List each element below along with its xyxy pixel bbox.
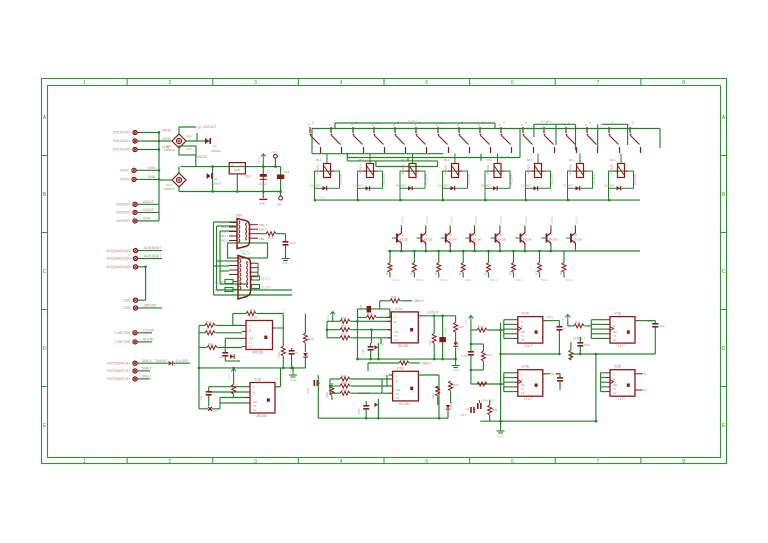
svg-text:R16: R16 <box>308 337 314 341</box>
svg-text:LED: LED <box>305 351 309 358</box>
svg-text:R3: R3 <box>434 271 438 275</box>
svg-text:DSB-1: DSB-1 <box>142 375 152 379</box>
svg-text:O: O <box>521 123 523 127</box>
svg-text:L4/3S: L4/3S <box>499 217 503 224</box>
svg-text:4: 4 <box>340 80 343 86</box>
svg-text:L.IMIT/SW: L.IMIT/SW <box>115 340 130 344</box>
svg-text:B: B <box>253 391 255 395</box>
svg-text:C7: C7 <box>214 409 218 413</box>
svg-text:R14: R14 <box>277 352 281 358</box>
svg-text:C13: C13 <box>361 349 365 355</box>
svg-text:BF208: BF208 <box>549 238 558 242</box>
svg-text:L4/3S: L4/3S <box>550 217 554 224</box>
svg-text:C1: C1 <box>213 144 217 148</box>
svg-text:VDD: VDD <box>271 150 278 154</box>
svg-text:5: 5 <box>425 80 428 86</box>
svg-text:O: O <box>628 123 630 127</box>
svg-text:KL3P2: KL3P2 <box>261 286 271 290</box>
svg-text:T8: T8 <box>574 233 578 237</box>
svg-text:R29: R29 <box>341 388 347 392</box>
svg-text:R28: R28 <box>341 325 347 329</box>
svg-text:IC5A: IC5A <box>614 312 622 316</box>
svg-text:AC1: AC1 <box>186 134 192 138</box>
svg-text:O: O <box>329 123 331 127</box>
svg-text:R15: R15 <box>250 308 256 312</box>
svg-text:O: O <box>308 123 310 127</box>
svg-text:O: O <box>564 123 566 127</box>
svg-text:DR1-2: DR1-2 <box>515 278 524 282</box>
svg-text:BF208: BF208 <box>448 238 457 242</box>
svg-text:IC2A: IC2A <box>395 307 403 311</box>
svg-text:DR1-2: DR1-2 <box>392 278 401 282</box>
svg-text:R23: R23 <box>431 393 435 399</box>
svg-text:RL: RL <box>588 120 592 124</box>
svg-text:6VOUT: 6VOUT <box>143 200 154 204</box>
svg-text:R19: R19 <box>341 316 347 320</box>
svg-text:C2: C2 <box>396 396 400 400</box>
svg-text:C2: C2 <box>394 338 398 342</box>
svg-text:O: O <box>542 123 544 127</box>
svg-text:3: 3 <box>254 80 257 86</box>
svg-text:7: 7 <box>597 80 600 86</box>
svg-text:JRC081: JRC081 <box>399 402 411 406</box>
svg-text:4: 4 <box>340 459 343 465</box>
svg-text:BF208: BF208 <box>473 238 482 242</box>
svg-text:DBB-2: DBB-2 <box>422 362 432 366</box>
svg-text:LROUT: LROUT <box>427 311 439 315</box>
svg-text:R6: R6 <box>509 271 513 275</box>
svg-text:R26: R26 <box>325 392 329 398</box>
svg-text:R2: R2 <box>409 271 413 275</box>
svg-text:VCC: VCC <box>326 314 330 321</box>
svg-text:C2: C2 <box>521 391 525 395</box>
svg-text:6V/0V/6V: 6V/0V/6V <box>117 211 131 215</box>
svg-text:R11: R11 <box>206 327 212 331</box>
svg-text:O: O <box>585 123 587 127</box>
svg-text:8: 8 <box>682 80 685 86</box>
svg-text:GND: GND <box>453 368 461 372</box>
svg-text:GND: GND <box>234 168 240 172</box>
svg-text:KL3P2: KL3P2 <box>261 277 271 281</box>
svg-text:H: H <box>644 388 646 392</box>
svg-text:O: O <box>393 123 395 127</box>
svg-text:0VIN: 0VIN <box>143 216 151 220</box>
svg-text:BF208: BF208 <box>574 238 583 242</box>
svg-text:DSB-9: DSB-9 <box>142 359 152 363</box>
svg-text:IC4B: IC4B <box>522 365 529 369</box>
svg-text:6: 6 <box>511 459 514 465</box>
svg-text:R20: R20 <box>400 358 406 362</box>
svg-text:DR1-2: DR1-2 <box>465 278 474 282</box>
svg-text:R18: R18 <box>367 312 373 316</box>
svg-text:C18: C18 <box>357 409 361 415</box>
svg-text:L4/3S: L4/3S <box>474 217 478 224</box>
svg-text:C2: C2 <box>613 391 617 395</box>
svg-text:6: 6 <box>511 80 514 86</box>
svg-text:A: A <box>613 320 615 324</box>
svg-text:0V/12V/24V: 0V/12V/24V <box>113 131 131 135</box>
svg-text:LOGOUT: LOGOUT <box>481 399 494 403</box>
svg-text:R24: R24 <box>486 353 492 357</box>
svg-text:A: A <box>613 373 615 377</box>
svg-text:R16: R16 <box>428 340 432 346</box>
svg-text:LLD1: LLD1 <box>456 342 460 350</box>
svg-text:R27: R27 <box>341 374 347 378</box>
svg-text:74177: 74177 <box>524 397 533 401</box>
svg-text:FOOTSWITCH+: FOOTSWITCH+ <box>107 369 130 373</box>
svg-text:+5B: +5B <box>276 203 281 207</box>
svg-text:XB1/N: XB1/N <box>242 252 251 256</box>
svg-text:(1)L.9S2: (1)L.9S2 <box>176 359 188 363</box>
svg-text:AUX(2)AUX(1)IN: AUX(2)AUX(1)IN <box>106 249 131 253</box>
svg-text:IC5B: IC5B <box>614 365 621 369</box>
svg-text:L.IMIT/SW: L.IMIT/SW <box>115 331 130 335</box>
svg-text:A: A <box>253 386 255 390</box>
svg-text:DR1-2: DR1-2 <box>566 278 575 282</box>
svg-text:74177: 74177 <box>616 344 625 348</box>
svg-text:AC2: AC2 <box>186 147 192 151</box>
svg-text:6V/3V: 6V/3V <box>120 178 130 182</box>
svg-text:100R/W: 100R/W <box>164 148 175 152</box>
svg-text:0VOUT: 0VOUT <box>143 208 154 212</box>
svg-text:R32: R32 <box>492 408 498 412</box>
svg-text:VCC: VCC <box>257 156 261 163</box>
svg-text:LPROUT: LPROUT <box>573 337 585 341</box>
svg-text:VCC: VCC <box>464 318 468 325</box>
svg-text:O: O <box>607 123 609 127</box>
svg-text:TN4O67: TN4O67 <box>155 359 167 363</box>
svg-text:6VIN: 6VIN <box>148 166 156 170</box>
svg-text:L4/3S: L4/3S <box>425 217 429 224</box>
svg-text:XB2-5: XB2-5 <box>220 239 228 243</box>
svg-text:O: O <box>499 123 501 127</box>
svg-text:O: O <box>436 123 438 127</box>
svg-text:VCC: VCC <box>227 373 231 380</box>
svg-text:IC2B: IC2B <box>397 366 404 370</box>
svg-text:D: D <box>43 346 47 352</box>
svg-text:XB1-: XB1- <box>259 237 265 241</box>
svg-text:1000uF: 1000uF <box>211 149 221 153</box>
svg-text:A: A <box>249 324 251 328</box>
svg-text:BF208: BF208 <box>424 238 433 242</box>
svg-text:C: C <box>43 269 47 275</box>
svg-text:12VIN: 12VIN <box>162 137 172 141</box>
svg-text:R4: R4 <box>458 271 462 275</box>
svg-text:BF208: BF208 <box>523 238 532 242</box>
svg-text:R13: R13 <box>206 320 212 324</box>
svg-text:XB2-4: XB2-4 <box>220 234 228 238</box>
svg-text:KL1P: KL1P <box>215 289 223 293</box>
svg-text:KL2P: KL2P <box>215 281 223 285</box>
svg-text:C14: C14 <box>461 354 467 358</box>
svg-text:7812: 7812 <box>244 175 251 179</box>
svg-text:T2: T2 <box>424 233 428 237</box>
svg-text:T7: T7 <box>549 233 553 237</box>
svg-text:SP: SP <box>197 126 201 130</box>
svg-text:GND: GND <box>497 435 505 439</box>
svg-text:C2: C2 <box>214 177 218 181</box>
svg-text:B: B <box>249 329 251 333</box>
svg-text:A: A <box>521 320 523 324</box>
svg-text:C19: C19 <box>359 305 363 311</box>
svg-text:T3: T3 <box>448 233 452 237</box>
svg-text:T5: T5 <box>498 233 502 237</box>
svg-text:DB9: DB9 <box>236 214 242 218</box>
svg-text:6V/0V/6V: 6V/0V/6V <box>117 219 131 223</box>
svg-text:GND: GND <box>290 378 298 382</box>
svg-text:C-: C- <box>563 327 566 331</box>
svg-text:L4/3S: L4/3S <box>449 217 453 224</box>
svg-text:230V: 230V <box>123 306 131 310</box>
svg-text:JRC081: JRC081 <box>252 351 264 355</box>
svg-text:FOOTSWITCH+: FOOTSWITCH+ <box>107 361 130 365</box>
svg-text:T6: T6 <box>523 233 527 237</box>
svg-text:DR1-2: DR1-2 <box>541 278 550 282</box>
svg-text:BF208: BF208 <box>498 238 507 242</box>
svg-text:O: O <box>457 123 459 127</box>
svg-text:LTOUT: LTOUT <box>282 308 286 318</box>
svg-text:230V: 230V <box>123 298 131 302</box>
svg-text:C2: C2 <box>521 338 525 342</box>
svg-text:GND: GND <box>282 261 290 265</box>
svg-text:OU: OU <box>240 164 244 168</box>
svg-text:74177: 74177 <box>616 397 625 401</box>
svg-text:R28: R28 <box>341 381 347 385</box>
svg-text:L4/3S: L4/3S <box>401 217 405 224</box>
svg-text:IN: IN <box>231 164 234 168</box>
svg-text:C2: C2 <box>253 408 257 412</box>
svg-text:24VIN: 24VIN <box>162 129 172 133</box>
svg-text:FOOTSWITCH+: FOOTSWITCH+ <box>107 377 130 381</box>
svg-text:C17: C17 <box>465 407 471 411</box>
svg-text:C15: C15 <box>444 328 448 334</box>
svg-text:1: 1 <box>83 459 86 465</box>
svg-text:C8: C8 <box>380 343 384 347</box>
svg-text:AUX(2)AUX(1)IN: AUX(2)AUX(1)IN <box>106 257 131 261</box>
svg-text:D: D <box>722 346 726 352</box>
svg-text:C2: C2 <box>613 338 617 342</box>
svg-text:1: 1 <box>83 80 86 86</box>
svg-text:XB1-4: XB1-4 <box>259 223 267 227</box>
svg-text:24VOUT: 24VOUT <box>203 125 216 129</box>
svg-text:POINT: POINT <box>408 119 417 123</box>
svg-text:C2: C2 <box>249 345 253 349</box>
svg-text:IC4A: IC4A <box>522 312 530 316</box>
svg-text:R31: R31 <box>575 321 581 325</box>
svg-text:XB2-1: XB2-1 <box>220 221 228 225</box>
svg-text:RL: RL <box>631 120 635 124</box>
svg-text:R22: R22 <box>453 383 459 387</box>
svg-text:DR1-2: DR1-2 <box>490 278 499 282</box>
svg-text:R8: R8 <box>559 271 563 275</box>
svg-text:0V/12V/24V: 0V/12V/24V <box>113 148 131 152</box>
svg-text:DBB-9: DBB-9 <box>414 299 424 303</box>
svg-text:470uF: 470uF <box>258 183 267 187</box>
svg-text:8: 8 <box>682 459 685 465</box>
svg-text:A: A <box>396 374 398 378</box>
svg-text:2: 2 <box>169 80 172 86</box>
svg-text:3VIN: 3VIN <box>148 175 156 179</box>
svg-text:7: 7 <box>597 459 600 465</box>
svg-text:JRC081: JRC081 <box>397 344 409 348</box>
svg-text:RLSTR: RLSTR <box>143 338 154 342</box>
svg-text:R30: R30 <box>478 325 484 329</box>
svg-text:R29: R29 <box>341 333 347 337</box>
svg-text:VCC: VCC <box>561 317 565 324</box>
svg-text:2: 2 <box>169 459 172 465</box>
svg-text:C21: C21 <box>284 170 290 174</box>
svg-text:JRC081: JRC081 <box>256 414 268 418</box>
svg-text:XB1-7: XB1-7 <box>259 228 267 232</box>
svg-text:LTCVW: LTCVW <box>143 328 154 332</box>
svg-text:C4: C4 <box>219 355 223 359</box>
svg-text:C20: C20 <box>584 343 590 347</box>
svg-text:6V/3V: 6V/3V <box>120 169 130 173</box>
svg-text:1000uF: 1000uF <box>211 182 221 186</box>
svg-text:C: C <box>722 269 726 275</box>
svg-text:DSB-2: DSB-2 <box>142 367 152 371</box>
svg-text:RL: RL <box>502 120 506 124</box>
svg-text:XB2-3: XB2-3 <box>220 230 228 234</box>
svg-text:AUX(3)OUT: AUX(3)OUT <box>144 246 161 250</box>
svg-text:GND: GND <box>259 202 267 206</box>
svg-text:RL: RL <box>524 120 528 124</box>
svg-text:DR1-2: DR1-2 <box>440 278 449 282</box>
svg-text:C5: C5 <box>294 351 298 355</box>
svg-text:A: A <box>521 373 523 377</box>
svg-text:AUX(2)AUX(1)IN: AUX(2)AUX(1)IN <box>106 265 131 269</box>
svg-text:C6: C6 <box>199 396 203 400</box>
svg-text:0V/12V/24V: 0V/12V/24V <box>113 139 131 143</box>
svg-text:C12: C12 <box>306 388 310 394</box>
svg-text:BF208: BF208 <box>400 238 409 242</box>
svg-text:L4/3S: L4/3S <box>524 217 528 224</box>
svg-text:C23: C23 <box>659 324 665 328</box>
svg-text:O: O <box>351 123 353 127</box>
svg-text:R1: R1 <box>385 271 389 275</box>
svg-text:DR1-2: DR1-2 <box>416 278 425 282</box>
svg-text:RL: RL <box>610 120 614 124</box>
svg-text:L4/3S: L4/3S <box>575 217 579 224</box>
svg-text:5: 5 <box>425 459 428 465</box>
svg-text:R12: R12 <box>208 342 214 346</box>
svg-text:IC1B: IC1B <box>254 378 261 382</box>
svg-text:T1: T1 <box>400 233 404 237</box>
svg-text:R7: R7 <box>535 271 539 275</box>
svg-text:H: H <box>644 372 646 376</box>
svg-text:RL: RL <box>567 120 571 124</box>
svg-text:O: O <box>372 123 374 127</box>
svg-text:C3: C3 <box>266 170 270 174</box>
svg-text:R21: R21 <box>391 295 397 299</box>
svg-text:IC1A: IC1A <box>250 316 258 320</box>
svg-text:A: A <box>394 315 396 319</box>
svg-text:R5: R5 <box>484 271 488 275</box>
svg-text:100R/W: 100R/W <box>164 187 175 191</box>
svg-text:TTP1: TTP1 <box>546 316 554 320</box>
svg-text:B: B <box>394 320 396 324</box>
svg-text:230V/5%: 230V/5% <box>540 120 553 124</box>
svg-text:XB2-2: XB2-2 <box>220 225 228 229</box>
svg-text:6V/0V/6V: 6V/0V/6V <box>117 203 131 207</box>
svg-text:LED2: LED2 <box>449 401 453 409</box>
svg-text:RL: RL <box>311 120 315 124</box>
svg-text:230V/3S: 230V/3S <box>144 304 156 308</box>
svg-text:SWOUT: SWOUT <box>196 155 208 159</box>
svg-text:C22: C22 <box>290 241 296 245</box>
svg-text:C17: C17 <box>460 413 466 417</box>
svg-text:VCC: VCC <box>319 196 326 200</box>
svg-text:O: O <box>478 123 480 127</box>
svg-text:74177: 74177 <box>524 344 533 348</box>
svg-text:3: 3 <box>254 459 257 465</box>
svg-text:R26: R26 <box>268 236 274 240</box>
svg-text:O: O <box>414 123 416 127</box>
svg-text:B: B <box>396 379 398 383</box>
svg-text:T4: T4 <box>473 233 477 237</box>
svg-text:AUX(3)OUT: AUX(3)OUT <box>144 254 161 258</box>
